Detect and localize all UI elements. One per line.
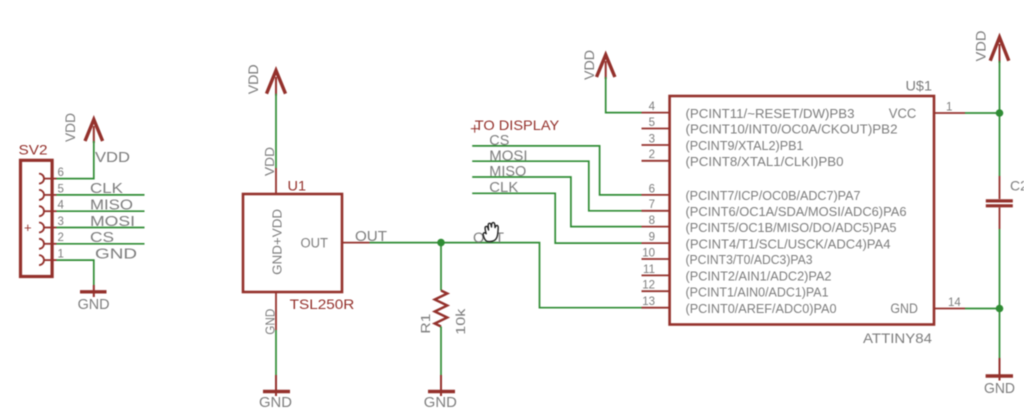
svg-text:OUT: OUT [301, 235, 329, 250]
svg-text:GND: GND [259, 394, 292, 411]
wire CLK net stub from SV2 pin 5 [57, 194, 145, 196]
wire GND net from capacitor to pin 14 junction and down [999, 229, 1001, 358]
pin 4 stub [642, 112, 670, 114]
wire VDD net down to U1 [275, 94, 277, 168]
svg-text:CS: CS [489, 132, 509, 149]
svg-text:11: 11 [643, 264, 655, 276]
wire GND net down to ground [275, 330, 277, 375]
svg-text:9: 9 [649, 232, 655, 244]
svg-text:(PCINT2/AIN1/ADC2)PA2: (PCINT2/AIN1/ADC2)PA2 [686, 269, 832, 284]
svg-text:13: 13 [642, 296, 655, 308]
pin 6 stub [642, 194, 670, 196]
wire CS net stub from SV2 pin 2 [57, 243, 145, 245]
pin 14 stub [934, 308, 965, 310]
svg-text:(PCINT1/AIN0/ADC1)PA1: (PCINT1/AIN0/ADC1)PA1 [686, 284, 829, 299]
op-amp U1 body (TSL250R light sensor) [243, 194, 342, 292]
pin 5 stub [642, 128, 670, 130]
wire GND net from pin 14 to rail [965, 308, 1000, 310]
IC U$1 body (ATTINY84) [670, 96, 934, 325]
pin 7 stub [642, 210, 670, 212]
svg-text:(PCINT5/OC1B/MISO/DO/ADC5)PA5: (PCINT5/OC1B/MISO/DO/ADC5)PA5 [686, 220, 897, 235]
svg-text:SV2: SV2 [19, 143, 48, 158]
svg-text:1: 1 [58, 249, 64, 261]
svg-text:2: 2 [58, 232, 64, 244]
svg-text:R1: R1 [418, 314, 433, 334]
wire CLK net to ATTINY pin 9 [472, 193, 641, 243]
svg-text:(PCINT9/XTAL2)PB1: (PCINT9/XTAL2)PB1 [686, 138, 804, 153]
pin 1 of SV2 [39, 255, 57, 265]
svg-text:7: 7 [649, 199, 655, 211]
svg-text:1: 1 [946, 101, 952, 113]
wire MISO net to ATTINY pin 8 [472, 177, 641, 227]
svg-text:(PCINT11/~RESET/DW)PB3: (PCINT11/~RESET/DW)PB3 [686, 106, 855, 121]
svg-text:VDD: VDD [582, 50, 597, 80]
svg-text:(PCINT0/AREF/ADC0)PA0: (PCINT0/AREF/ADC0)PA0 [686, 301, 837, 316]
supply symbol VDD (above U1) [267, 71, 286, 96]
svg-text:VCC: VCC [889, 106, 917, 121]
pin OUT of U1 [342, 242, 370, 244]
pin 1 stub [934, 112, 965, 114]
wire VDD net from SV2 pin 6 up to supply arrow [57, 141, 94, 179]
svg-text:VDD: VDD [974, 30, 989, 61]
capacitor C2 [986, 176, 1013, 229]
svg-text:5: 5 [649, 117, 655, 129]
svg-text:8: 8 [649, 215, 655, 227]
pin 11 stub [642, 274, 670, 276]
junction node at pin 14 rail [996, 305, 1004, 313]
svg-text:MISO: MISO [90, 197, 133, 214]
svg-text:14: 14 [948, 297, 961, 309]
svg-text:VDD: VDD [95, 149, 130, 166]
svg-text:(PCINT10/INT0/OC0A/CKOUT)PB2: (PCINT10/INT0/OC0A/CKOUT)PB2 [686, 122, 898, 137]
svg-text:4: 4 [58, 200, 65, 212]
resistor R1 [435, 291, 448, 327]
ground symbol (below SV2) [80, 285, 107, 297]
pin 6 of SV2 (hook + stub) [39, 174, 57, 184]
ground symbol (below R1) [428, 375, 455, 396]
svg-text:GND: GND [984, 380, 1015, 397]
svg-text:12: 12 [642, 280, 655, 292]
ground symbol (far right) [986, 358, 1013, 381]
svg-text:2: 2 [649, 149, 655, 161]
svg-text:U$1: U$1 [906, 78, 933, 93]
svg-text:CLK: CLK [489, 179, 518, 196]
origin cross of TO DISPLAY label [471, 125, 479, 133]
svg-text:VDD: VDD [262, 147, 277, 176]
wire OUT net from U1 to junction and to ATTINY pin 13 [370, 243, 642, 308]
svg-text:VDD: VDD [246, 64, 261, 94]
svg-text:GND: GND [78, 296, 110, 313]
junction node at pin 1 rail [996, 109, 1004, 117]
svg-text:4: 4 [649, 101, 656, 113]
resistor R1 wire from junction [440, 243, 442, 291]
ground symbol (below U1) [263, 375, 290, 396]
svg-text:MISO: MISO [489, 163, 526, 180]
wire MOSI net to ATTINY pin 7 [472, 161, 641, 211]
svg-text:GND: GND [95, 245, 137, 262]
svg-text:GND+VDD: GND+VDD [271, 209, 285, 275]
mouse hand cursor [483, 223, 498, 242]
junction node OUT [437, 239, 445, 247]
wire VCC net from pin 1 to rail [965, 112, 1000, 114]
svg-text:5: 5 [58, 183, 64, 195]
svg-text:TSL250R: TSL250R [290, 296, 355, 312]
svg-text:MOSI: MOSI [90, 213, 135, 230]
svg-text:(PCINT4/T1/SCL/USCK/ADC4)PA4: (PCINT4/T1/SCL/USCK/ADC4)PA4 [686, 236, 891, 251]
pin 12 stub [642, 290, 670, 292]
pin 3 stub [642, 144, 670, 146]
connector SV2 body [21, 160, 53, 276]
supply symbol VDD (far right) [990, 37, 1009, 63]
svg-text:GND: GND [890, 301, 918, 316]
svg-text:(PCINT8/XTAL1/CLKI)PB0: (PCINT8/XTAL1/CLKI)PB0 [686, 154, 844, 169]
svg-text:10: 10 [642, 247, 655, 259]
pin 8 stub [642, 226, 670, 228]
wire R1 to ground [440, 327, 442, 376]
pin 2 stub [642, 160, 670, 162]
pin GND of U1 [275, 292, 277, 330]
pin 10 stub [642, 258, 670, 260]
svg-text:3: 3 [649, 133, 655, 145]
svg-text:6: 6 [649, 183, 655, 195]
svg-text:3: 3 [58, 216, 64, 228]
svg-text:6: 6 [58, 167, 64, 179]
svg-text:(PCINT3/T0/ADC3)PA3: (PCINT3/T0/ADC3)PA3 [686, 252, 813, 267]
wire CS net to ATTINY pin 6 [472, 146, 641, 195]
supply symbol VDD (left, above SV2) [85, 120, 103, 144]
wire VDD rail down to capacitor [999, 61, 1001, 176]
svg-text:U1: U1 [288, 178, 307, 193]
supply symbol VDD (above ATTINY) [597, 55, 615, 79]
pin 9 stub [642, 242, 670, 244]
svg-text:(PCINT6/OC1A/SDA/MOSI/ADC6)PA6: (PCINT6/OC1A/SDA/MOSI/ADC6)PA6 [686, 204, 907, 219]
pin VDD of U1 [275, 168, 277, 194]
wire GND net from SV2 pin 1 down to ground [57, 260, 94, 285]
svg-text:CLK: CLK [90, 180, 123, 197]
pin 3 of SV2 [39, 223, 57, 233]
svg-text:VDD: VDD [63, 113, 78, 142]
wire MISO net stub from SV2 pin 4 [57, 210, 145, 212]
svg-text:+: + [24, 220, 32, 235]
pin 13 stub [642, 307, 670, 309]
pin 4 of SV2 [39, 206, 57, 216]
svg-text:C2: C2 [1010, 178, 1024, 194]
pin 5 of SV2 [39, 190, 57, 200]
svg-text:10k: 10k [453, 308, 468, 335]
svg-text:ATTINY84: ATTINY84 [863, 330, 932, 346]
svg-text:GND: GND [424, 394, 457, 411]
wire VDD net to ATTINY pin 4 [606, 77, 642, 113]
svg-text:TO DISPLAY: TO DISPLAY [475, 117, 560, 133]
wire MOSI net stub from SV2 pin 3 [57, 227, 145, 229]
pin 2 of SV2 [39, 239, 57, 249]
svg-text:CS: CS [90, 229, 114, 246]
svg-text:(PCINT7/ICP/OC0B/ADC7)PA7: (PCINT7/ICP/OC0B/ADC7)PA7 [686, 188, 861, 203]
